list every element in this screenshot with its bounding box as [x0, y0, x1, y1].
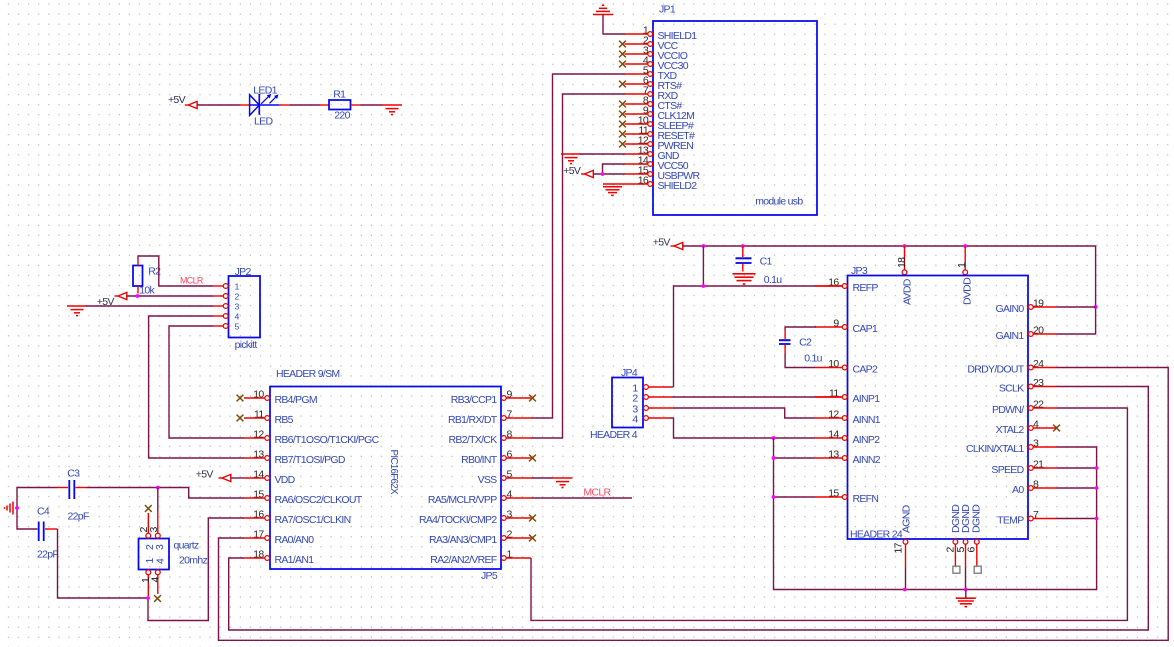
svg-text:TEMP: TEMP: [997, 514, 1024, 526]
svg-text:pickitt: pickitt: [235, 339, 258, 351]
svg-text:PIC16F62X: PIC16F62X: [388, 450, 399, 496]
svg-text:22pF: 22pF: [68, 511, 89, 523]
svg-text:RA5/MCLR/VPP: RA5/MCLR/VPP: [428, 494, 497, 506]
svg-text:A0: A0: [1012, 484, 1024, 496]
svg-text:0.1u: 0.1u: [764, 274, 782, 286]
svg-text:C2: C2: [799, 337, 812, 349]
svg-text:RA2/AN2/VREF: RA2/AN2/VREF: [430, 554, 497, 566]
svg-text:RA1/AN1: RA1/AN1: [275, 554, 315, 566]
svg-text:R1: R1: [333, 89, 346, 101]
svg-text:1: 1: [956, 262, 968, 268]
svg-text:RB3/CCP1: RB3/CCP1: [451, 394, 498, 406]
svg-text:RB5: RB5: [275, 414, 294, 426]
svg-text:CAP1: CAP1: [853, 323, 878, 335]
svg-text:C1: C1: [760, 256, 773, 268]
svg-text:CLKIN/XTAL1: CLKIN/XTAL1: [966, 443, 1024, 455]
svg-text:4: 4: [149, 577, 161, 583]
svg-text:DGND: DGND: [971, 504, 983, 533]
svg-text:AINN1: AINN1: [853, 414, 881, 426]
svg-text:PDWN/: PDWN/: [992, 404, 1024, 416]
svg-text:RB0/INT: RB0/INT: [461, 454, 498, 466]
svg-text:SCLK: SCLK: [999, 382, 1024, 394]
svg-text:RA6/OSC2/CLKOUT: RA6/OSC2/CLKOUT: [275, 494, 363, 506]
svg-text:CAP2: CAP2: [853, 363, 878, 375]
svg-text:VSS: VSS: [478, 474, 498, 486]
svg-text:AVDD: AVDD: [902, 278, 914, 305]
svg-text:MCLR: MCLR: [583, 487, 611, 499]
svg-text:4: 4: [632, 413, 638, 425]
svg-text:LED1: LED1: [253, 85, 277, 97]
svg-text:HEADER 9/SM: HEADER 9/SM: [276, 368, 339, 380]
svg-text:DRDY/DOUT: DRDY/DOUT: [967, 363, 1024, 375]
svg-text:17: 17: [893, 542, 905, 553]
svg-text:RB4/PGM: RB4/PGM: [275, 394, 317, 406]
svg-text:quartz: quartz: [174, 540, 199, 552]
svg-text:AGND: AGND: [901, 504, 913, 533]
svg-text:GAIN0: GAIN0: [995, 303, 1024, 315]
svg-text:XTAL2: XTAL2: [996, 424, 1025, 436]
svg-text:RA7/OSC1/CLKIN: RA7/OSC1/CLKIN: [275, 514, 351, 526]
svg-text:RA0/AN0: RA0/AN0: [275, 534, 315, 546]
svg-text:6: 6: [965, 547, 977, 553]
svg-text:HEADER 24: HEADER 24: [850, 529, 903, 541]
svg-text:VDD: VDD: [275, 474, 296, 486]
svg-text:REFP: REFP: [853, 282, 879, 294]
svg-text:C4: C4: [37, 506, 50, 518]
svg-text:DVDD: DVDD: [962, 277, 974, 305]
svg-text:LED: LED: [254, 116, 273, 128]
svg-text:220: 220: [334, 110, 350, 122]
svg-text:JP2: JP2: [235, 266, 252, 278]
svg-text:RA4/TOCKI/CMP2: RA4/TOCKI/CMP2: [419, 514, 497, 526]
svg-text:MCLR: MCLR: [180, 276, 204, 286]
svg-text:10k: 10k: [139, 285, 155, 297]
svg-text:JP4: JP4: [621, 367, 638, 379]
svg-text:+5V: +5V: [563, 165, 581, 177]
svg-text:RB2/TX/CK: RB2/TX/CK: [449, 434, 498, 446]
svg-text:+5V: +5V: [196, 469, 214, 481]
svg-text:SHIELD2: SHIELD2: [658, 180, 698, 192]
svg-text:4: 4: [154, 558, 166, 564]
svg-text:20mhz: 20mhz: [179, 555, 207, 567]
svg-text:RB7/T1OSI/PGD: RB7/T1OSI/PGD: [275, 454, 346, 466]
svg-text:22pF: 22pF: [37, 549, 58, 561]
svg-text:GAIN1: GAIN1: [995, 330, 1024, 342]
svg-text:RA3/AN3/CMP1: RA3/AN3/CMP1: [429, 534, 497, 546]
svg-text:REFN: REFN: [853, 493, 879, 505]
svg-text:AINP1: AINP1: [853, 393, 881, 405]
svg-text:RB6/T1OSO/T1CKI/PGC: RB6/T1OSO/T1CKI/PGC: [275, 434, 380, 446]
svg-text:RB1/RX/DT: RB1/RX/DT: [448, 414, 498, 426]
svg-text:AINN2: AINN2: [853, 454, 881, 466]
svg-text:C3: C3: [67, 468, 80, 480]
svg-text:+5V: +5V: [168, 94, 186, 106]
svg-text:JP1: JP1: [659, 4, 676, 16]
svg-text:HEADER 4: HEADER 4: [590, 429, 638, 441]
svg-text:JP3: JP3: [851, 265, 868, 277]
svg-text:0.1u: 0.1u: [804, 353, 822, 365]
svg-text:3: 3: [154, 544, 166, 550]
svg-text:18: 18: [896, 257, 908, 268]
svg-text:AINP2: AINP2: [853, 434, 881, 446]
svg-text:SPEED: SPEED: [991, 464, 1024, 476]
svg-text:3: 3: [148, 527, 160, 533]
svg-text:+5V: +5V: [653, 237, 671, 249]
svg-text:module usb: module usb: [755, 196, 803, 208]
svg-text:JP5: JP5: [481, 570, 498, 582]
